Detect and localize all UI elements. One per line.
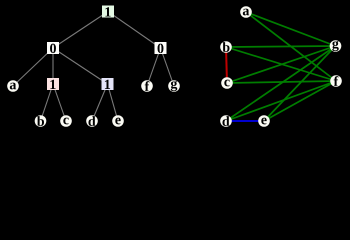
node graph node g: [330, 40, 342, 52]
node graph node c: [221, 77, 233, 89]
cotree edges (gray): [13, 12, 174, 122]
wire left0 - pink1: [52, 48, 54, 84]
edge c-g: [227, 46, 336, 83]
node lavender 1 box: [102, 78, 114, 90]
wire lavender1 - d: [92, 84, 108, 121]
wire lavender1 - e: [108, 84, 119, 121]
edge d-f: [226, 81, 336, 121]
edge e-g: [264, 46, 336, 121]
node graph node b: [220, 41, 232, 53]
node tree node e: [112, 115, 124, 127]
node tree node g: [168, 80, 180, 92]
wire pink1 - c: [53, 84, 66, 121]
node root 1 (green box): [102, 6, 114, 18]
edge b-f: [226, 47, 336, 81]
node tree node a: [7, 80, 19, 92]
node tree node c: [60, 115, 72, 127]
node graph node f: [330, 75, 342, 87]
node graph node e: [258, 115, 270, 127]
node tree node b: [35, 115, 47, 127]
wire right0 - f: [147, 48, 161, 86]
wire root1 - left0: [53, 12, 108, 49]
edge b-g: [226, 46, 336, 47]
edge b-c (red): [226, 47, 227, 83]
wire root1 - right0: [108, 12, 161, 49]
edge a-f: [246, 12, 336, 81]
wire left0 - a: [13, 48, 53, 86]
node tree node f: [141, 80, 153, 92]
node right 0 box: [155, 42, 167, 54]
edge d-e (blue): [226, 120, 264, 122]
node tree node d: [86, 115, 98, 127]
cograph join edges (green): [226, 12, 336, 121]
edge e-f: [264, 81, 336, 121]
wire pink1 - b: [41, 84, 54, 121]
node graph node d: [220, 115, 232, 127]
wire right0 - g: [161, 48, 175, 86]
node graph node a: [240, 6, 252, 18]
node left 0 box: [47, 42, 59, 54]
edge d-g: [226, 46, 336, 121]
wire left0 - lavender1: [53, 48, 108, 84]
edge a-g: [246, 12, 336, 46]
node pink 1 box: [47, 78, 59, 90]
edge c-f: [227, 81, 336, 83]
